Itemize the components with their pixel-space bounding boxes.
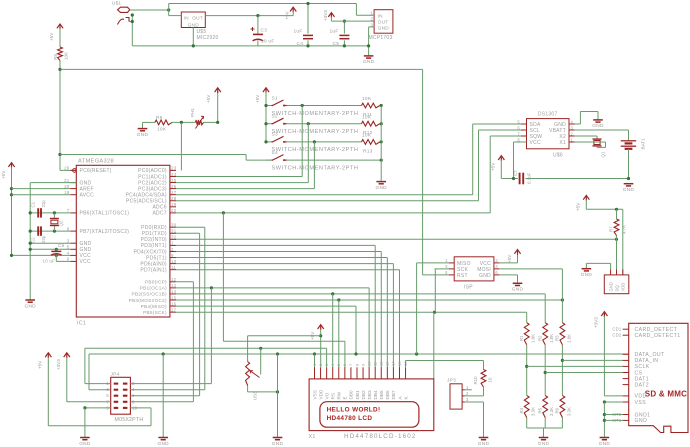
svg-text:+5V: +5V bbox=[491, 162, 496, 171]
svg-text:3: 3 bbox=[571, 125, 574, 130]
svg-text:GND: GND bbox=[538, 441, 550, 447]
svg-text:11: 11 bbox=[171, 265, 176, 270]
svg-text:10K: 10K bbox=[157, 127, 167, 133]
svg-text:SCLK: SCLK bbox=[635, 364, 650, 370]
svg-text:30: 30 bbox=[171, 223, 177, 228]
svg-text:1uF: 1uF bbox=[330, 29, 339, 35]
svg-text:VDD: VDD bbox=[621, 283, 626, 292]
svg-text:10: 10 bbox=[366, 361, 371, 366]
svg-text:+5V: +5V bbox=[255, 94, 260, 103]
svg-text:C1: C1 bbox=[31, 201, 36, 207]
svg-text:DB0: DB0 bbox=[349, 390, 354, 400]
svg-text:GND: GND bbox=[599, 441, 611, 447]
svg-text:U$6: U$6 bbox=[553, 153, 563, 159]
svg-text:DB7: DB7 bbox=[391, 390, 396, 400]
svg-text:VDD: VDD bbox=[635, 394, 647, 400]
svg-text:1.8K: 1.8K bbox=[566, 334, 571, 343]
svg-text:3.3K: 3.3K bbox=[566, 407, 571, 416]
svg-text:CD2: CD2 bbox=[612, 333, 622, 338]
svg-text:+5V: +5V bbox=[285, 10, 290, 19]
svg-text:GND: GND bbox=[635, 418, 648, 424]
svg-text:DB4: DB4 bbox=[373, 390, 378, 400]
svg-text:ISP: ISP bbox=[464, 285, 473, 291]
svg-text:2: 2 bbox=[466, 391, 469, 396]
svg-text:6: 6 bbox=[495, 270, 498, 275]
svg-text:RW: RW bbox=[337, 391, 342, 399]
svg-text:32: 32 bbox=[171, 235, 177, 240]
svg-text:GND: GND bbox=[592, 123, 604, 129]
svg-text:PB1(OC1A): PB1(OC1A) bbox=[140, 286, 167, 291]
svg-text:10: 10 bbox=[171, 259, 177, 264]
svg-text:1: 1 bbox=[466, 385, 469, 390]
svg-text:X1: X1 bbox=[309, 434, 316, 440]
svg-text:GND: GND bbox=[363, 59, 375, 65]
svg-text:PB3(MOSI/OC2): PB3(MOSI/OC2) bbox=[129, 298, 167, 303]
svg-text:DB1: DB1 bbox=[355, 390, 360, 400]
svg-text:SD & MMC: SD & MMC bbox=[645, 390, 687, 399]
svg-text:24: 24 bbox=[171, 172, 177, 177]
svg-text:RS: RS bbox=[331, 393, 336, 400]
svg-text:DATA_OUT: DATA_OUT bbox=[635, 352, 666, 358]
svg-text:C4: C4 bbox=[297, 41, 304, 47]
svg-text:PB0(ICP): PB0(ICP) bbox=[145, 280, 167, 285]
svg-text:1.8K: 1.8K bbox=[531, 334, 536, 343]
svg-text:ATMEGA328: ATMEGA328 bbox=[78, 158, 114, 164]
svg-text:AVCC: AVCC bbox=[80, 193, 95, 199]
svg-text:R8: R8 bbox=[53, 54, 58, 60]
svg-text:7: 7 bbox=[517, 131, 520, 136]
svg-text:2: 2 bbox=[495, 258, 498, 263]
svg-text:IC1: IC1 bbox=[77, 321, 86, 327]
svg-text:GND: GND bbox=[80, 247, 92, 253]
svg-text:GND: GND bbox=[581, 272, 593, 278]
svg-text:DQ: DQ bbox=[615, 284, 620, 291]
svg-text:27: 27 bbox=[171, 190, 177, 195]
svg-text:RST: RST bbox=[457, 273, 468, 279]
svg-text:SWITCH-MOMENTARY-2PTH: SWITCH-MOMENTARY-2PTH bbox=[272, 165, 359, 171]
svg-text:X1: X1 bbox=[559, 140, 566, 146]
svg-text:JP4: JP4 bbox=[111, 371, 120, 377]
svg-text:10 uF: 10 uF bbox=[261, 38, 275, 44]
svg-text:PB4(MISO): PB4(MISO) bbox=[141, 304, 167, 309]
svg-text:13: 13 bbox=[385, 361, 390, 366]
svg-text:12: 12 bbox=[379, 361, 384, 366]
svg-text:BAT1: BAT1 bbox=[641, 138, 646, 150]
svg-text:2: 2 bbox=[171, 247, 174, 252]
svg-text:CS: CS bbox=[635, 370, 643, 376]
svg-text:VO: VO bbox=[324, 392, 329, 399]
svg-text:HD44780LCD-1602: HD44780LCD-1602 bbox=[344, 433, 417, 440]
svg-text:R10: R10 bbox=[473, 376, 478, 385]
svg-text:Q2: Q2 bbox=[59, 220, 64, 226]
svg-text:GND: GND bbox=[188, 22, 200, 28]
svg-text:PH1: PH1 bbox=[190, 108, 195, 117]
svg-text:29: 29 bbox=[64, 166, 70, 171]
svg-text:+5V: +5V bbox=[38, 360, 43, 369]
svg-text:13: 13 bbox=[171, 283, 177, 288]
svg-text:DS1307: DS1307 bbox=[538, 112, 558, 118]
svg-text:GND: GND bbox=[24, 303, 36, 309]
svg-text:VSS: VSS bbox=[312, 390, 317, 399]
svg-text:C3: C3 bbox=[261, 28, 268, 34]
svg-text:GND: GND bbox=[378, 26, 390, 32]
svg-text:16: 16 bbox=[171, 301, 177, 306]
svg-text:15: 15 bbox=[397, 361, 402, 366]
svg-text:CARD_DETECT1: CARD_DETECT1 bbox=[635, 333, 681, 339]
svg-text:VCC: VCC bbox=[530, 140, 541, 146]
svg-text:JP3: JP3 bbox=[447, 378, 456, 384]
svg-text:19: 19 bbox=[171, 202, 177, 207]
svg-text:VDD: VDD bbox=[318, 389, 323, 400]
svg-text:PB7(XTAL2/TOSC2): PB7(XTAL2/TOSC2) bbox=[80, 229, 130, 235]
svg-text:R3: R3 bbox=[555, 335, 560, 341]
svg-text:GND: GND bbox=[79, 441, 91, 447]
svg-text:R7: R7 bbox=[609, 226, 614, 232]
svg-text:+5V: +5V bbox=[206, 94, 211, 103]
svg-text:1: 1 bbox=[371, 10, 374, 15]
svg-text:PD7(AIN1): PD7(AIN1) bbox=[140, 267, 167, 273]
svg-text:GND: GND bbox=[80, 241, 92, 247]
svg-text:GND: GND bbox=[375, 185, 387, 191]
svg-text:SWITCH-MOMENTARY-2PTH: SWITCH-MOMENTARY-2PTH bbox=[272, 129, 359, 135]
svg-text:5: 5 bbox=[517, 119, 520, 124]
svg-text:S3: S3 bbox=[272, 132, 278, 138]
svg-text:OUT: OUT bbox=[192, 15, 203, 21]
svg-text:6: 6 bbox=[517, 125, 520, 130]
svg-text:C7: C7 bbox=[513, 170, 518, 176]
svg-text:14: 14 bbox=[171, 289, 177, 294]
svg-text:S1: S1 bbox=[272, 95, 278, 101]
svg-text:26: 26 bbox=[171, 184, 177, 189]
svg-text:14: 14 bbox=[391, 361, 396, 366]
svg-text:GND: GND bbox=[272, 441, 284, 447]
svg-text:ADC7: ADC7 bbox=[152, 211, 166, 217]
svg-text:AREF: AREF bbox=[80, 186, 94, 192]
svg-text:MCP1703: MCP1703 bbox=[369, 35, 393, 41]
svg-text:R2: R2 bbox=[538, 335, 543, 341]
svg-text:R6: R6 bbox=[555, 407, 560, 413]
svg-text:15: 15 bbox=[171, 295, 177, 300]
svg-text:10 uF: 10 uF bbox=[43, 259, 56, 264]
svg-text:S2: S2 bbox=[272, 114, 278, 120]
svg-text:GND: GND bbox=[157, 441, 169, 447]
svg-text:10: 10 bbox=[488, 377, 493, 382]
svg-text:3.3K: 3.3K bbox=[531, 407, 536, 416]
svg-text:3.3K: 3.3K bbox=[549, 407, 554, 416]
svg-text:+3V3: +3V3 bbox=[594, 317, 599, 328]
svg-text:HD44780 LCD: HD44780 LCD bbox=[327, 415, 373, 422]
svg-text:R9: R9 bbox=[156, 115, 163, 121]
svg-text:GND: GND bbox=[479, 273, 491, 279]
svg-text:IN: IN bbox=[378, 14, 384, 20]
svg-text:DB5: DB5 bbox=[379, 390, 384, 400]
svg-text:DAT2: DAT2 bbox=[635, 382, 649, 388]
svg-text:4: 4 bbox=[571, 119, 574, 124]
svg-text:Q1: Q1 bbox=[601, 151, 606, 157]
svg-text:S4: S4 bbox=[272, 150, 278, 156]
svg-text:R1: R1 bbox=[519, 335, 524, 341]
svg-text:U$1: U$1 bbox=[112, 1, 121, 6]
svg-text:22: 22 bbox=[171, 208, 177, 213]
svg-text:0.1uF: 0.1uF bbox=[527, 172, 532, 184]
svg-text:IN: IN bbox=[184, 15, 190, 21]
svg-text:4.7K: 4.7K bbox=[622, 225, 627, 234]
svg-text:E: E bbox=[343, 396, 348, 399]
svg-text:CD1: CD1 bbox=[612, 327, 622, 332]
svg-text:DB2: DB2 bbox=[361, 390, 366, 400]
svg-text:1uF: 1uF bbox=[294, 29, 303, 35]
svg-text:M05X2PTH: M05X2PTH bbox=[115, 417, 144, 423]
svg-text:GND: GND bbox=[137, 132, 149, 138]
svg-text:+5V: +5V bbox=[49, 32, 54, 41]
svg-text:GND: GND bbox=[478, 441, 490, 447]
svg-text:C5: C5 bbox=[333, 41, 340, 47]
svg-text:28: 28 bbox=[171, 196, 177, 201]
svg-text:25: 25 bbox=[171, 178, 177, 183]
svg-text:OUT: OUT bbox=[378, 20, 389, 26]
svg-text:31: 31 bbox=[171, 229, 177, 234]
svg-text:9: 9 bbox=[171, 253, 174, 258]
svg-text:GND: GND bbox=[512, 287, 524, 293]
svg-text:R4: R4 bbox=[519, 407, 524, 413]
svg-text:HELLO WORLD!: HELLO WORLD! bbox=[327, 406, 381, 413]
svg-text:10K: 10K bbox=[362, 96, 372, 102]
svg-text:GND: GND bbox=[609, 282, 614, 291]
svg-text:VCC: VCC bbox=[80, 259, 91, 265]
svg-text:R13: R13 bbox=[363, 148, 373, 154]
svg-text:1: 1 bbox=[571, 137, 574, 142]
svg-text:PB2(SS/OC1B): PB2(SS/OC1B) bbox=[131, 292, 166, 297]
svg-text:PB5(SCK): PB5(SCK) bbox=[143, 310, 167, 315]
svg-text:3: 3 bbox=[466, 397, 469, 402]
svg-text:5: 5 bbox=[106, 393, 109, 398]
svg-text:12: 12 bbox=[171, 277, 177, 282]
svg-text:SWITCH-MOMENTARY-2PTH: SWITCH-MOMENTARY-2PTH bbox=[272, 147, 359, 153]
svg-text:+3V3: +3V3 bbox=[56, 359, 61, 370]
svg-text:10K: 10K bbox=[362, 133, 372, 139]
svg-text:MIC2920: MIC2920 bbox=[197, 35, 219, 41]
svg-text:1: 1 bbox=[171, 241, 174, 246]
svg-text:PB6(XTAL1/TOSC1): PB6(XTAL1/TOSC1) bbox=[80, 211, 130, 217]
svg-text:DB3: DB3 bbox=[367, 390, 372, 400]
svg-text:22p: 22p bbox=[41, 200, 46, 208]
svg-text:+3V3: +3V3 bbox=[323, 10, 328, 21]
svg-text:10K: 10K bbox=[362, 114, 372, 120]
svg-text:PC6(RESET): PC6(RESET) bbox=[80, 168, 112, 174]
svg-text:2: 2 bbox=[371, 16, 374, 21]
svg-text:1.8K: 1.8K bbox=[549, 334, 554, 343]
svg-text:+5V: +5V bbox=[576, 202, 581, 211]
svg-text:23: 23 bbox=[171, 166, 177, 171]
svg-text:VSS: VSS bbox=[635, 400, 647, 406]
svg-text:+5V: +5V bbox=[1, 170, 6, 179]
svg-text:R5: R5 bbox=[538, 407, 543, 413]
svg-text:22p: 22p bbox=[41, 235, 46, 243]
svg-text:4: 4 bbox=[495, 264, 498, 269]
svg-text:10K: 10K bbox=[64, 51, 69, 60]
svg-text:SWITCH-MOMENTARY-2PTH: SWITCH-MOMENTARY-2PTH bbox=[272, 111, 359, 117]
svg-text:17: 17 bbox=[171, 307, 177, 312]
svg-text:C6: C6 bbox=[58, 243, 65, 248]
svg-text:GND: GND bbox=[623, 187, 635, 193]
svg-text:+5V: +5V bbox=[507, 254, 512, 263]
svg-text:2: 2 bbox=[571, 131, 574, 136]
svg-text:DB6: DB6 bbox=[385, 390, 390, 400]
